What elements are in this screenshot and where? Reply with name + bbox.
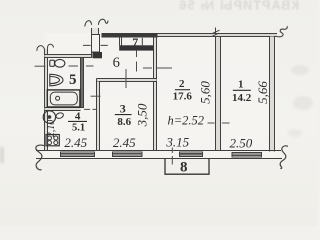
- room3 window: [113, 152, 143, 158]
- bottom outer wall band: [36, 151, 282, 159]
- svg-text:8.6: 8.6: [117, 116, 131, 128]
- top wall right end squiggle: [277, 26, 287, 37]
- door dashes room2 to room1: [208, 122, 230, 124]
- tick crossing left wall: [35, 65, 46, 67]
- bleed-through heading (mirrored): [178, 0, 299, 13]
- right outer wall: [270, 37, 275, 152]
- svg-text:КВАРТИРЫ № 56: КВАРТИРЫ № 56: [178, 0, 299, 13]
- svg-text:5: 5: [69, 72, 77, 88]
- svg-text:3: 3: [120, 101, 126, 115]
- left wall break squiggle: [37, 44, 54, 51]
- wall bathroom / kitchen: [45, 108, 81, 111]
- closet 7 door centerline: [136, 51, 138, 72]
- entry door centerline: [83, 44, 108, 46]
- room 3 fraction line: [115, 114, 132, 116]
- svg-text:14.2: 14.2: [232, 92, 252, 104]
- top wall break mark at room 2/1 divider: [212, 28, 220, 37]
- closet 7 tick mark: [141, 38, 143, 45]
- svg-text:2.45: 2.45: [113, 135, 136, 150]
- svg-text:5,66: 5,66: [255, 81, 270, 104]
- apartment interior wash: [44, 33, 277, 159]
- door tick room3: [125, 69, 127, 88]
- kitchen sink: [43, 111, 64, 123]
- bathroom top wall: [45, 55, 100, 58]
- svg-text:17.6: 17.6: [173, 91, 193, 103]
- bottom wall left squiggle: [36, 145, 44, 170]
- closet 7 bottom wall thick: [119, 45, 155, 50]
- edge smudge left: [0, 147, 4, 163]
- stove: [46, 135, 59, 146]
- svg-text:5,60: 5,60: [198, 81, 213, 104]
- top wall thick (over hall/closet): [102, 33, 158, 38]
- left outer wall: [45, 49, 48, 151]
- door dashes hall6 to room2: [143, 67, 172, 69]
- tick crossing room3 left wall: [91, 95, 101, 97]
- svg-text:2.45: 2.45: [64, 135, 87, 150]
- svg-text:4: 4: [75, 110, 81, 122]
- top wall thin (over rooms 2 and 1): [158, 34, 278, 37]
- wall kitchen right / room3 left: [97, 79, 100, 151]
- svg-text:2: 2: [179, 78, 185, 90]
- svg-text:h=2.52: h=2.52: [168, 113, 205, 127]
- svg-text:3,50: 3,50: [134, 103, 149, 127]
- svg-text:2,10: 2,10: [46, 120, 57, 138]
- washbasin: [50, 74, 63, 86]
- bottom wall right squiggle: [280, 146, 288, 169]
- entry wall lower black fill: [92, 35, 100, 53]
- room 1 fraction line: [233, 89, 251, 91]
- balcony door centerline: [171, 148, 173, 165]
- entry wall vertical: [92, 28, 99, 58]
- closet 7 left wall: [120, 38, 122, 46]
- bathtub: [47, 90, 80, 107]
- toilet: [50, 59, 65, 67]
- svg-text:1: 1: [238, 79, 244, 91]
- wall hall6 / room2: [154, 38, 157, 151]
- bathroom right wall: [81, 58, 84, 108]
- bathroom door centerline: [69, 65, 94, 67]
- svg-text:3.15: 3.15: [165, 135, 189, 150]
- svg-text:5.1: 5.1: [72, 122, 85, 133]
- dashed opening kitchen top: [84, 108, 97, 110]
- room 2 fraction line: [175, 89, 190, 91]
- wall room2 / room1: [216, 37, 221, 151]
- wall hall6 / room3: [97, 79, 157, 82]
- entry wall break squiggle: [85, 19, 108, 26]
- svg-text:2.50: 2.50: [230, 136, 253, 151]
- svg-text:7: 7: [132, 35, 138, 49]
- faint smudges right: [288, 65, 313, 137]
- balcony window: [180, 152, 203, 158]
- room1 window: [232, 152, 262, 158]
- kitchen window: [61, 152, 95, 158]
- room 4 fraction line: [68, 120, 87, 122]
- balcony outline: [165, 159, 209, 175]
- svg-text:8: 8: [180, 159, 188, 175]
- svg-text:6: 6: [113, 55, 120, 71]
